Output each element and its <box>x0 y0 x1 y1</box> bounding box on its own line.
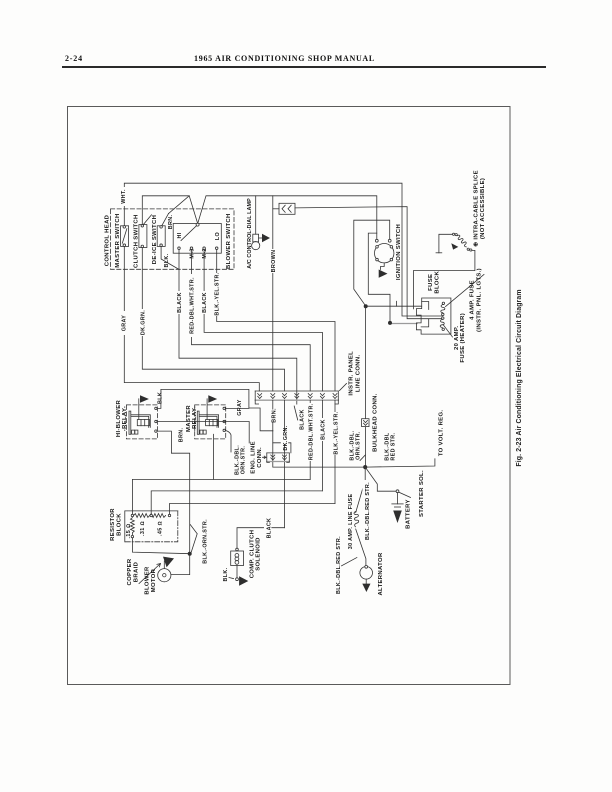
ignition switch body <box>375 239 394 263</box>
starter solenoid terminal <box>396 490 399 493</box>
wire DK.GRN. <box>142 248 284 391</box>
bulkhead connector <box>362 419 369 427</box>
terminal tick <box>396 301 398 306</box>
svg-text:.31 Ω: .31 Ω <box>140 521 146 536</box>
solenoid L1 <box>231 548 244 565</box>
hi-blower relay K1 <box>126 399 157 439</box>
svg-text:COPPER: COPPER <box>127 558 133 585</box>
svg-text:ALTERNATOR: ALTERNATOR <box>378 552 384 595</box>
leader black stub <box>294 406 298 420</box>
solenoid ground lead <box>236 566 238 578</box>
wire main vertical feed <box>365 306 367 467</box>
label RED-DBL.WHT.STR. <box>187 274 195 337</box>
label BLK.-YEL.STR. below conn <box>331 411 339 455</box>
svg-text:BLOCK: BLOCK <box>435 271 441 294</box>
wire clutch switch feed to blower wiper <box>142 196 197 225</box>
svg-text:Fig. 2-23 Air Conditioning El: Fig. 2-23 Air Conditioning Electrical Ci… <box>516 289 523 466</box>
wire master relay lower stub <box>225 430 231 452</box>
wire relay contact bus <box>157 422 249 444</box>
figure border frame <box>68 107 511 685</box>
wire lamp drop <box>255 196 257 234</box>
wire junction to line fuse <box>356 467 366 512</box>
svg-text:SOLENOID: SOLENOID <box>256 537 262 571</box>
label BLK.-YEL.STR. <box>213 272 221 316</box>
wire link to eng conn right <box>273 443 291 453</box>
line fuse 30 amp <box>354 511 359 527</box>
splice wire and coil <box>413 233 475 309</box>
alternator ground lead <box>365 579 367 584</box>
wire BLACK blower M-2 <box>204 250 322 392</box>
wire BLK ground bus from relays <box>157 389 273 430</box>
label BROWN <box>269 249 277 273</box>
copper braid ground stub <box>163 561 165 569</box>
svg-text:DK.GRN.: DK.GRN. <box>283 425 289 450</box>
battery B1 <box>392 493 403 507</box>
wire BLACK blower HI <box>179 250 297 405</box>
svg-text:WHT.: WHT. <box>121 189 127 204</box>
alternator ground arrow <box>362 584 370 592</box>
wire master relay foot drop <box>213 434 215 479</box>
wire fuse to alternator <box>356 529 366 566</box>
wire connector to fuse block <box>295 207 442 319</box>
junction dot resistor feed <box>188 552 192 556</box>
clutch switch S2 body <box>139 215 152 248</box>
label BLACK at solenoid wire <box>264 517 272 539</box>
svg-text:BLK.-ORN.STR.: BLK.-ORN.STR. <box>203 519 209 564</box>
junction dot main feed <box>364 304 368 308</box>
label 30 AMP. LINE FUSE <box>346 489 354 554</box>
ignition ground lead <box>381 263 385 270</box>
fuse F2 20-amp <box>440 317 444 331</box>
label BLACK 2 <box>200 291 208 314</box>
svg-text:BLOWER SWITCH: BLOWER SWITCH <box>226 213 232 269</box>
blower motor M1 <box>158 569 171 582</box>
wire BLACK below conn <box>321 400 323 491</box>
svg-text:⊕ INTRA-CABLE SPLICE: ⊕ INTRA-CABLE SPLICE <box>473 170 479 247</box>
svg-text:DK.GRN.: DK.GRN. <box>140 310 146 335</box>
wire lower feed to fuse block <box>390 323 417 325</box>
svg-text:BLACK: BLACK <box>177 292 183 313</box>
lamp bulb <box>252 242 260 250</box>
svg-text:STARTER SOL.: STARTER SOL. <box>419 470 425 517</box>
leader 20 amp fuse <box>443 325 453 338</box>
svg-text:BLK.-DBL.RED STR.: BLK.-DBL.RED STR. <box>365 482 371 540</box>
svg-text:BLK.: BLK. <box>164 253 170 267</box>
wire ignition feed line <box>198 196 377 240</box>
connector chevrons <box>258 394 337 399</box>
svg-text:RED STR.: RED STR. <box>390 432 396 460</box>
svg-text:HI: HI <box>177 232 183 238</box>
leader instr panel conn <box>340 384 347 391</box>
wire dk.grn to solenoid <box>237 528 285 549</box>
svg-text:GRAY: GRAY <box>237 399 243 416</box>
svg-text:RESISTOR: RESISTOR <box>110 508 116 541</box>
svg-text:30 AMP. LINE FUSE: 30 AMP. LINE FUSE <box>348 494 354 550</box>
svg-text:BRN.: BRN. <box>178 428 184 443</box>
svg-text:BLACK: BLACK <box>202 292 208 313</box>
wire to voltage regulator <box>365 459 435 467</box>
svg-text:BROWN: BROWN <box>271 250 277 273</box>
header rule <box>62 66 546 68</box>
label RED-DBL.WHT.STR. below conn <box>306 403 314 461</box>
engine line connector <box>267 453 290 463</box>
lamp socket <box>253 234 259 242</box>
svg-text:FUSE (HEATER): FUSE (HEATER) <box>460 313 466 363</box>
svg-text:M-3: M-3 <box>190 248 196 258</box>
de-ice switch S3 body <box>157 214 168 247</box>
wire black to resistor mid tap <box>151 491 322 514</box>
wire hi-blower to resistor junction <box>157 431 190 552</box>
alternator G1 <box>360 565 373 579</box>
leader 4 amp fuse <box>446 275 485 307</box>
wire de-ice to black drop <box>161 247 179 270</box>
blower switch terminal LO <box>215 247 218 250</box>
svg-text:BLACK: BLACK <box>266 518 272 539</box>
svg-text:(INSTR. PNL. LGTS.): (INSTR. PNL. LGTS.) <box>476 268 482 332</box>
svg-text:4 AMP. FUSE: 4 AMP. FUSE <box>470 280 476 320</box>
svg-text:IGNITION SWITCH: IGNITION SWITCH <box>396 224 402 280</box>
label BRN. below conn <box>270 408 278 423</box>
wire BRN below conn <box>272 400 274 431</box>
blower switch terminal HI <box>178 247 181 250</box>
wire GRAY <box>124 247 259 391</box>
wire junction to blower motor <box>171 554 190 575</box>
svg-text:A/C CONTROL-DIAL LAMP: A/C CONTROL-DIAL LAMP <box>247 198 253 269</box>
svg-text:BLK.: BLK. <box>157 390 163 404</box>
wire master relay top terminal link <box>225 407 249 409</box>
svg-text:BLOCK: BLOCK <box>116 513 122 536</box>
svg-text:ORN.STR.: ORN.STR. <box>240 446 246 475</box>
blower switch wiper <box>181 223 199 240</box>
svg-text:GRAY: GRAY <box>122 315 128 332</box>
wire branch to fuse block lower <box>368 233 390 323</box>
lamp ground lead <box>259 237 262 239</box>
svg-text:(NOT ACCESSIBLE): (NOT ACCESSIBLE) <box>480 178 486 239</box>
resistor tap terminals <box>131 514 133 516</box>
svg-text:FUSE: FUSE <box>428 274 434 291</box>
ignition ground arrow <box>379 270 388 278</box>
wire WHT from master switch to fuse block <box>124 183 442 316</box>
leader starter sol <box>399 492 411 497</box>
label GRAY <box>120 311 127 335</box>
svg-text:.45 Ω: .45 Ω <box>158 521 164 536</box>
fuse F1 4-amp <box>441 302 445 316</box>
svg-text:LINE CONN.: LINE CONN. <box>355 355 361 393</box>
wire de-ice link <box>169 196 190 214</box>
master relay K2 <box>195 399 226 439</box>
wire RED-DBL below conn <box>309 400 311 479</box>
svg-text:LO: LO <box>215 232 221 240</box>
wire BLK.-YEL below conn <box>334 400 336 503</box>
label BLK.-DBL.RED STR. at fuse <box>362 480 370 542</box>
svg-text:BLK.-YEL.STR.: BLK.-YEL.STR. <box>333 411 339 454</box>
wire red-dbl to resistor <box>132 479 310 514</box>
svg-text:BLACK: BLACK <box>300 409 306 430</box>
svg-text:ENG. LINE: ENG. LINE <box>250 441 256 474</box>
svg-text:TO VOLT. REG.: TO VOLT. REG. <box>438 410 444 457</box>
leaders blk-orn-str <box>190 525 197 553</box>
wire RED-DBL.WHT.STR. blower M-3 <box>192 250 311 392</box>
wire ignition right terminal riser <box>354 220 390 306</box>
wire BRN to eng conn and junction <box>273 431 365 467</box>
svg-text:MOTOR: MOTOR <box>151 568 157 592</box>
label BLACK below conn <box>318 418 326 441</box>
solenoid ground arrow <box>239 576 248 586</box>
svg-text:BLK.: BLK. <box>223 567 229 581</box>
svg-text:BLACK: BLACK <box>321 419 327 440</box>
control head dashed enclosure <box>111 209 235 269</box>
svg-text:BULKHEAD CONN.: BULKHEAD CONN. <box>372 393 378 452</box>
svg-text:ORN.STR.: ORN.STR. <box>356 431 362 460</box>
svg-text:BRAID: BRAID <box>133 562 139 582</box>
blower switch terminal M-3 <box>190 247 193 250</box>
svg-text:.15 Ω: .15 Ω <box>126 524 132 539</box>
svg-text:BLK.-YEL.STR.: BLK.-YEL.STR. <box>215 272 221 315</box>
master switch S1 body <box>121 226 129 247</box>
instrument panel line connector <box>255 391 338 404</box>
hi-blower relay ground arrow <box>140 395 149 402</box>
junction dot bulkhead <box>363 465 367 469</box>
copper braid arrow <box>163 557 174 568</box>
fuse block inner partitions <box>421 302 429 327</box>
leader eng line conn arrow <box>263 456 267 458</box>
wire BROWN drop <box>272 196 274 391</box>
resistor element horizontal <box>134 514 166 518</box>
label DK.GRN. below conn <box>281 425 289 450</box>
solenoid ground terminal <box>236 578 239 581</box>
svg-text:MASTER SWITCH: MASTER SWITCH <box>115 213 121 267</box>
fuse block outline <box>416 298 451 334</box>
svg-text:1965 AIR CONDITIONING SHOP: 1965 AIR CONDITIONING SHOP MANUAL <box>194 54 375 63</box>
connector J1 two-way <box>273 203 295 214</box>
svg-text:INSTR. PANEL: INSTR. PANEL <box>349 351 355 396</box>
leader copper braid <box>139 564 161 584</box>
wire DK.GRN below conn <box>284 400 286 528</box>
svg-text:BRN.: BRN. <box>271 408 277 423</box>
leader blk-dbl-red <box>342 558 357 566</box>
svg-text:-RELAY-: -RELAY- <box>122 406 128 431</box>
label BLACK <box>175 291 183 314</box>
leader blk solenoid <box>229 578 234 579</box>
svg-text:RED-DBL.WHT.STR.: RED-DBL.WHT.STR. <box>189 277 195 334</box>
svg-text:M-2: M-2 <box>202 248 208 258</box>
svg-text:CONN.: CONN. <box>257 447 263 468</box>
svg-text:BLK.-DBL.RED STR.: BLK.-DBL.RED STR. <box>336 536 342 594</box>
blower switch terminal M-2 <box>203 247 206 250</box>
lamp ground arrow <box>262 234 270 242</box>
svg-text:-RELAY-: -RELAY- <box>192 406 198 431</box>
resistor block enclosure <box>125 511 178 542</box>
blower switch S4 body <box>173 224 221 254</box>
svg-text:2-24: 2-24 <box>65 54 83 63</box>
svg-text:BLOWER: BLOWER <box>144 566 150 595</box>
svg-text:CONTROL HEAD: CONTROL HEAD <box>104 215 110 267</box>
wire main feed to fuse block upper <box>366 305 422 307</box>
label WHT. <box>120 187 128 206</box>
wire BLK.-YEL.STR. blower LO <box>217 250 335 392</box>
label DK.GRN. <box>139 309 147 336</box>
wire blk-yel to resistor right tap <box>170 504 336 515</box>
junction dot lower feed <box>388 321 392 325</box>
battery ground arrow <box>393 511 402 524</box>
resistor element vertical <box>131 518 135 535</box>
svg-text:BATTERY: BATTERY <box>405 499 411 529</box>
svg-text:RED-DBL.WHT.STR.: RED-DBL.WHT.STR. <box>309 403 315 460</box>
wire to starter solenoid terminal <box>365 467 396 491</box>
svg-text:COMP. CLUTCH: COMP. CLUTCH <box>249 530 255 579</box>
leader blk-dbl orn <box>360 455 365 461</box>
master relay ground arrow <box>208 395 217 402</box>
wire resistor out to junction <box>132 538 189 554</box>
